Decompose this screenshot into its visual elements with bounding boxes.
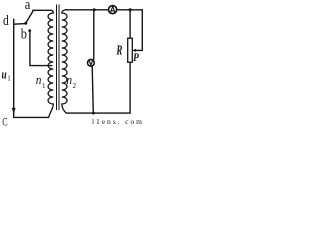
svg-text:n: n — [66, 72, 72, 87]
switch pivot node dot — [24, 22, 27, 25]
wire ammeter to right corner and down to wiper — [117, 10, 142, 51]
secondary winding n2 — [62, 10, 67, 114]
wire V branch upper — [93, 10, 95, 59]
contact b dot — [28, 29, 31, 32]
wire R branch lower — [129, 62, 131, 113]
svg-text:n: n — [36, 72, 42, 87]
svg-text:d: d — [3, 13, 9, 29]
terminal stub d — [13, 19, 15, 24]
svg-text:1: 1 — [7, 75, 11, 83]
node top junction (R branch) — [129, 8, 132, 11]
wire V branch lower — [92, 67, 93, 114]
wire bottom-right — [66, 112, 130, 114]
svg-text:R: R — [116, 44, 123, 59]
switch blade (closed to contact a) — [26, 11, 33, 24]
wire n2 top to ammeter — [66, 9, 108, 11]
arrow u1 direction — [12, 108, 16, 114]
svg-text:b: b — [21, 26, 27, 42]
resistor box R — [128, 38, 133, 62]
node top junction (V branch) — [93, 8, 96, 11]
wiper lead — [135, 49, 142, 51]
wire tap b to winding — [30, 31, 52, 66]
svg-text:P: P — [133, 52, 140, 64]
svg-text:a: a — [25, 0, 31, 13]
wire R branch upper — [129, 10, 131, 38]
ammeter A — [109, 6, 117, 14]
svg-text:C: C — [2, 114, 7, 126]
node bottom junction (V branch) — [92, 112, 95, 115]
voltmeter V — [88, 59, 95, 66]
transformer core — [57, 5, 60, 111]
svg-text:l1ens. com: l1ens. com — [92, 117, 142, 126]
svg-text:u: u — [2, 68, 7, 82]
wire d to switch pivot — [14, 23, 26, 26]
svg-text:1: 1 — [42, 82, 46, 90]
svg-text:2: 2 — [73, 82, 77, 90]
wire bottom-left — [14, 116, 49, 118]
wiper arrowhead — [132, 49, 136, 52]
primary winding n1 — [48, 10, 53, 117]
wire left vertical (source u1) — [13, 24, 15, 117]
wire a to primary top — [33, 9, 51, 11]
